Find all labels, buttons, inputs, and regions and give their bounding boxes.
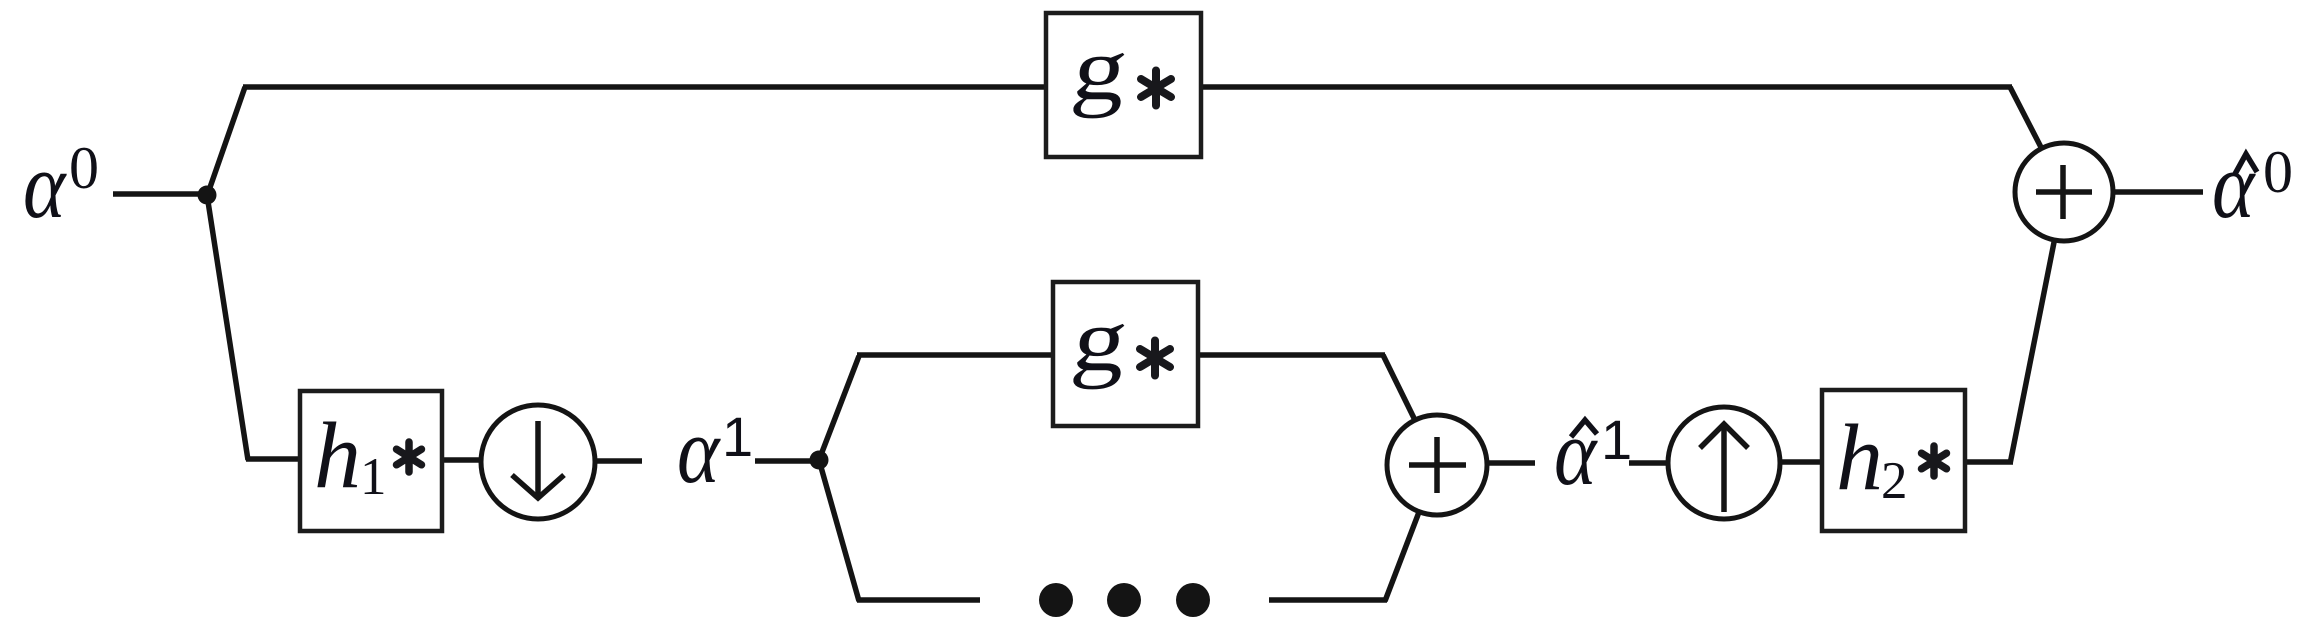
wire lower g bus left segment xyxy=(857,352,1056,358)
svg-text:0: 0 xyxy=(69,135,99,201)
wire branch up from node to top bus xyxy=(207,87,245,196)
wire branch up to lower g bus xyxy=(819,356,859,460)
wire top adder to a0hat xyxy=(2112,189,2203,195)
junction node on a0 line xyxy=(198,186,217,205)
box g* top xyxy=(1046,13,1201,157)
wire lower adder to a1hat xyxy=(1486,460,1535,466)
wire upsampler to h2 box xyxy=(1779,459,1825,465)
upsampler circle xyxy=(1668,407,1780,519)
ellipsis dot 3 xyxy=(1176,583,1210,617)
wire bottom right segment xyxy=(1269,597,1387,603)
wire top bus left segment xyxy=(243,84,1052,90)
wire a0 input xyxy=(113,191,206,197)
wire top bus right segment xyxy=(1196,84,2012,90)
wire bottom left segment xyxy=(857,597,980,603)
wire diagonal into lower adder xyxy=(1383,355,1437,465)
adder circle top xyxy=(2015,143,2113,241)
ellipsis dot 1 xyxy=(1039,583,1073,617)
box g* lower xyxy=(1053,282,1198,426)
svg-text:2: 2 xyxy=(1881,452,1908,510)
adder circle lower xyxy=(1387,415,1487,515)
wire branch down to ellipsis path xyxy=(819,460,859,601)
svg-text:1: 1 xyxy=(722,405,753,468)
wire branch down from node to h1 xyxy=(207,195,248,460)
box h1* xyxy=(300,391,442,531)
svg-text:α: α xyxy=(23,133,67,237)
box h2* xyxy=(1822,390,1965,531)
svg-text:h: h xyxy=(1836,406,1883,510)
wire top adder down to corner xyxy=(2010,192,2064,464)
junction node on a1 line xyxy=(810,451,829,470)
svg-text:α: α xyxy=(2212,133,2256,237)
wire diagonal into top adder xyxy=(2010,87,2064,192)
svg-text:h: h xyxy=(314,404,361,508)
node label a0 xyxy=(23,133,99,237)
wire a1 to junction xyxy=(755,458,818,464)
node label a0hat xyxy=(2212,133,2293,237)
downsampler circle xyxy=(481,405,595,519)
wire diagonal up into lower adder xyxy=(1385,465,1437,601)
svg-text:1: 1 xyxy=(360,448,387,506)
svg-text:α: α xyxy=(1554,400,1598,504)
node label a1 xyxy=(677,398,753,502)
wire downsampler to a1 xyxy=(594,458,642,464)
wire a1hat to upsampler xyxy=(1629,460,1670,466)
wire lower g bus right segment xyxy=(1195,352,1385,358)
svg-text:1: 1 xyxy=(1601,408,1632,471)
wire h1 to downsampler xyxy=(441,457,484,463)
wire corner to h2 box xyxy=(1962,459,2013,465)
svg-text:α: α xyxy=(677,398,721,502)
wire into h1 box xyxy=(246,456,304,462)
ellipsis dot 2 xyxy=(1107,583,1141,617)
node label a1hat xyxy=(1554,400,1632,504)
svg-text:0: 0 xyxy=(2263,139,2293,205)
